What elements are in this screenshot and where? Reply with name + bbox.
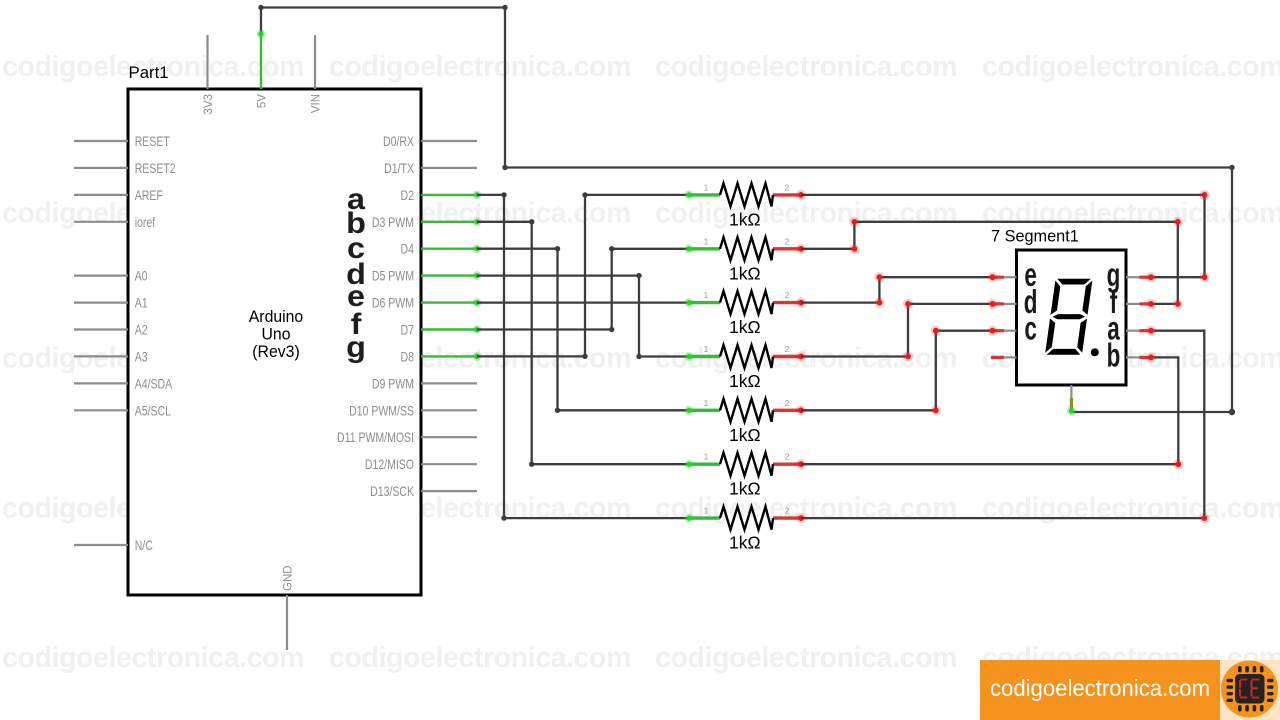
svg-text:VIN: VIN bbox=[311, 94, 323, 113]
svg-text:c: c bbox=[1024, 309, 1036, 346]
svg-text:1kΩ: 1kΩ bbox=[729, 479, 761, 499]
svg-text:D9 PWM: D9 PWM bbox=[372, 376, 414, 392]
svg-text:codigoelectronica.com: codigoelectronica.com bbox=[982, 51, 1280, 83]
svg-text:D3 PWM: D3 PWM bbox=[372, 215, 414, 231]
svg-text:2: 2 bbox=[785, 182, 790, 192]
label segment letter f bbox=[351, 307, 362, 341]
svg-text:D1/TX: D1/TX bbox=[384, 161, 414, 177]
svg-text:1: 1 bbox=[704, 290, 709, 300]
resistor R4 1kΩ bbox=[685, 344, 807, 391]
pin A1 bbox=[74, 295, 148, 311]
wire D3 to resistor R6 bbox=[477, 219, 689, 467]
pin 3V3 bbox=[203, 35, 215, 114]
pin ioref bbox=[74, 215, 156, 231]
svg-text:1: 1 bbox=[704, 452, 709, 462]
svg-text:g: g bbox=[346, 330, 366, 364]
wire D2 to resistor R7 bbox=[477, 192, 689, 521]
svg-text:N/C: N/C bbox=[135, 538, 153, 554]
wire 5V to display common (net VCC) bbox=[257, 5, 1236, 415]
pin D3 PWM bbox=[372, 215, 482, 231]
svg-text:1kΩ: 1kΩ bbox=[729, 371, 761, 391]
svg-text:2: 2 bbox=[785, 506, 790, 516]
label segment letter a bbox=[347, 182, 366, 216]
svg-text:D5 PWM: D5 PWM bbox=[372, 268, 414, 284]
svg-text:D0/RX: D0/RX bbox=[383, 134, 414, 150]
svg-text:A1: A1 bbox=[135, 295, 148, 311]
svg-text:Part1: Part1 bbox=[129, 63, 169, 82]
resistor R1 1kΩ bbox=[685, 182, 807, 229]
arduino U1 Part1 body bbox=[128, 63, 421, 595]
svg-text:1kΩ: 1kΩ bbox=[729, 533, 761, 553]
svg-text:1: 1 bbox=[704, 344, 709, 354]
resistor R5 1kΩ bbox=[685, 398, 807, 445]
pin RESET2 bbox=[74, 161, 176, 177]
svg-text:1: 1 bbox=[704, 182, 709, 192]
svg-text:3V3: 3V3 bbox=[203, 94, 215, 114]
pin N/C bbox=[74, 538, 153, 554]
display digit 8 bbox=[1044, 278, 1093, 355]
svg-text:1kΩ: 1kΩ bbox=[729, 317, 761, 337]
display decimal point bbox=[1091, 348, 1099, 356]
wire D4 to resistor R5 bbox=[477, 246, 689, 413]
pin GND bbox=[283, 565, 295, 650]
svg-text:A3: A3 bbox=[135, 349, 148, 365]
svg-text:codigoelectronica.com: codigoelectronica.com bbox=[655, 642, 957, 674]
pin D7 bbox=[401, 322, 482, 338]
pin D9 PWM bbox=[372, 376, 477, 392]
svg-text:ioref: ioref bbox=[135, 215, 156, 231]
svg-text:D11 PWM/MOSI: D11 PWM/MOSI bbox=[337, 430, 414, 446]
pin A5/SCL bbox=[74, 403, 171, 419]
svg-text:D7: D7 bbox=[401, 322, 415, 338]
7-segment display U2 "7 Segment1" body bbox=[991, 228, 1126, 386]
svg-text:(Rev3): (Rev3) bbox=[252, 342, 299, 361]
display common pin to 5V bbox=[1067, 385, 1076, 416]
resistor R2 1kΩ bbox=[685, 236, 807, 283]
svg-text:D2: D2 bbox=[401, 188, 415, 204]
svg-text:D6 PWM: D6 PWM bbox=[372, 295, 414, 311]
wire D8 to resistor R1 bbox=[477, 192, 689, 359]
resistor R3 1kΩ bbox=[685, 290, 807, 337]
svg-text:codigoelectronica.com: codigoelectronica.com bbox=[982, 198, 1280, 230]
svg-text:codigoelectronica.com: codigoelectronica.com bbox=[655, 51, 957, 83]
resistor R6 1kΩ bbox=[685, 452, 807, 499]
svg-text:codigoelectronica.com: codigoelectronica.com bbox=[329, 51, 631, 83]
display pin b bbox=[1107, 336, 1157, 373]
pin D13/SCK bbox=[370, 484, 477, 500]
wire R7 to segment a bbox=[801, 331, 1210, 524]
svg-text:Uno: Uno bbox=[262, 325, 291, 344]
svg-text:D12/MISO: D12/MISO bbox=[365, 457, 414, 473]
svg-text:1kΩ: 1kΩ bbox=[729, 209, 761, 229]
svg-text:D13/SCK: D13/SCK bbox=[370, 484, 414, 500]
pin D8 bbox=[401, 349, 482, 365]
label segment letter e bbox=[347, 279, 365, 313]
display pin g bbox=[1107, 256, 1157, 293]
wire R2 to segment f bbox=[801, 217, 1183, 309]
svg-text:1: 1 bbox=[704, 236, 709, 246]
display pin c bbox=[987, 309, 1037, 346]
pin D1/TX bbox=[384, 161, 477, 177]
svg-text:1kΩ: 1kΩ bbox=[729, 425, 761, 445]
svg-text:7 Segment1: 7 Segment1 bbox=[991, 228, 1079, 246]
display pin f bbox=[1110, 282, 1156, 319]
svg-text:AREF: AREF bbox=[135, 188, 163, 204]
display pin dp (n/c) bbox=[991, 356, 1017, 360]
svg-text:2: 2 bbox=[785, 398, 790, 408]
pin AREF bbox=[74, 188, 163, 204]
svg-text:A2: A2 bbox=[135, 322, 148, 338]
svg-text:A4/SDA: A4/SDA bbox=[135, 376, 173, 392]
wire R3 to segment e bbox=[801, 272, 993, 308]
svg-text:GND: GND bbox=[283, 565, 295, 591]
display pin e bbox=[987, 256, 1037, 293]
resistor R7 1kΩ bbox=[685, 506, 807, 553]
pin D5 PWM bbox=[372, 268, 482, 284]
svg-text:1: 1 bbox=[704, 398, 709, 408]
pin A4/SDA bbox=[74, 376, 173, 392]
display pin a bbox=[1107, 309, 1156, 346]
pin D6 PWM bbox=[372, 295, 482, 311]
svg-text:D4: D4 bbox=[401, 241, 415, 257]
svg-text:codigoelectronica.com: codigoelectronica.com bbox=[655, 198, 957, 230]
svg-text:2: 2 bbox=[785, 236, 790, 246]
wire R4 to segment d bbox=[801, 299, 993, 362]
label segment letter g bbox=[346, 330, 366, 364]
svg-text:b: b bbox=[1107, 336, 1121, 373]
svg-text:Arduino: Arduino bbox=[249, 308, 303, 327]
svg-text:codigoelectronica.com: codigoelectronica.com bbox=[990, 675, 1210, 701]
svg-text:RESET: RESET bbox=[135, 134, 171, 150]
pin D12/MISO bbox=[365, 457, 477, 473]
pin A0 bbox=[74, 268, 148, 284]
wire R6 to segment b bbox=[801, 357, 1184, 469]
svg-text:A0: A0 bbox=[135, 268, 148, 284]
svg-text:codigoelectronica.com: codigoelectronica.com bbox=[2, 642, 304, 674]
svg-text:1: 1 bbox=[704, 506, 709, 516]
svg-text:codigoelectronica.com: codigoelectronica.com bbox=[329, 642, 631, 674]
wire R5 to segment c bbox=[801, 326, 993, 416]
wire D7 to resistor R2 bbox=[477, 246, 689, 332]
svg-text:2: 2 bbox=[785, 344, 790, 354]
svg-text:D10 PWM/SS: D10 PWM/SS bbox=[349, 403, 414, 419]
label segment letter b bbox=[346, 206, 366, 240]
pin D0/RX bbox=[383, 134, 477, 150]
pin RESET bbox=[74, 134, 170, 150]
label segment letter c bbox=[347, 231, 365, 265]
pin VIN bbox=[311, 35, 323, 113]
pin A3 bbox=[74, 349, 148, 365]
pin A2 bbox=[74, 322, 148, 338]
svg-text:RESET2: RESET2 bbox=[135, 161, 176, 177]
pin 5V bbox=[257, 34, 269, 108]
pin D11 PWM/MOSI bbox=[337, 430, 477, 446]
pin D2 bbox=[401, 188, 482, 204]
svg-text:A5/SCL: A5/SCL bbox=[135, 403, 171, 419]
svg-text:codigoelectronica.com: codigoelectronica.com bbox=[982, 493, 1280, 525]
label segment letter d bbox=[346, 257, 366, 291]
wire D5 to resistor R4 bbox=[477, 273, 689, 359]
svg-text:D8: D8 bbox=[401, 349, 415, 365]
svg-text:2: 2 bbox=[785, 290, 790, 300]
svg-text:5V: 5V bbox=[257, 94, 269, 108]
wire R1 to segment g bbox=[801, 190, 1210, 283]
pin D4 bbox=[401, 241, 482, 257]
svg-text:1kΩ: 1kΩ bbox=[729, 263, 761, 283]
display pin d bbox=[987, 282, 1037, 319]
wire D6 to resistor R3 bbox=[477, 301, 689, 303]
svg-text:2: 2 bbox=[785, 452, 790, 462]
pin D10 PWM/SS bbox=[349, 403, 477, 419]
